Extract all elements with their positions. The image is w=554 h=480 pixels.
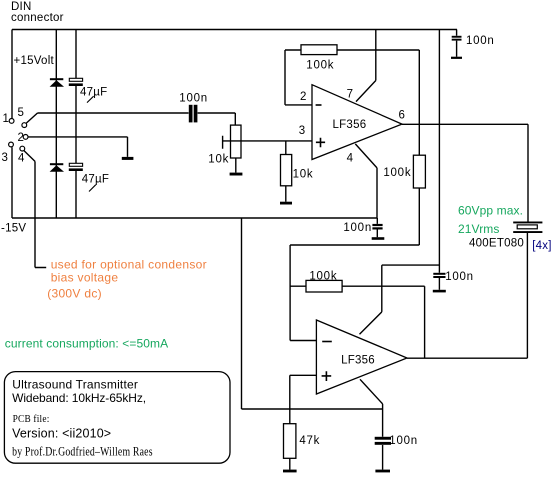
wire -15V bottom rail bbox=[12, 217, 377, 219]
svg-text:100k: 100k bbox=[383, 167, 411, 179]
wire capacitor column segments bbox=[75, 30, 77, 219]
wire +15V top rail bbox=[12, 29, 457, 31]
ground below DIN pin2 bbox=[122, 157, 134, 160]
svg-text:by Prof.Dr.Godfried–Willem Rae: by Prof.Dr.Godfried–Willem Raes bbox=[12, 445, 153, 458]
svg-text:LF356: LF356 bbox=[341, 355, 375, 367]
wire op-amp1 pin2 input bbox=[285, 104, 312, 106]
DIN pin 4 circle bbox=[20, 146, 25, 151]
op-amp U1 plus symbol bbox=[316, 138, 325, 148]
svg-text:4: 4 bbox=[18, 152, 25, 164]
wire signal input to coupling cap bbox=[38, 112, 189, 114]
svg-text:LF356: LF356 bbox=[333, 119, 367, 131]
wire feedback right leg down to pin6 node bbox=[337, 50, 419, 155]
capacitor C2 47uF electrolytic bbox=[69, 163, 83, 171]
diode D1 bbox=[50, 78, 64, 87]
diode D2 bbox=[50, 163, 64, 172]
wire pot wiper bar and wiper line to op-amp pin3 bbox=[223, 136, 312, 149]
svg-text:60Vpp max.: 60Vpp max. bbox=[458, 203, 523, 217]
ground below capacitor C5 bbox=[372, 237, 385, 240]
resistor R2 100k feedback body bbox=[301, 45, 337, 55]
svg-text:Version: <ii2010>: Version: <ii2010> bbox=[12, 427, 111, 441]
svg-text:100k: 100k bbox=[306, 59, 334, 71]
wire op-amp2 pin3 node down to 47k bbox=[289, 375, 291, 423]
svg-text:PCB file:: PCB file: bbox=[13, 414, 50, 426]
resistor R5 47k body bbox=[284, 424, 296, 459]
svg-text:2: 2 bbox=[18, 132, 25, 144]
svg-text:100n: 100n bbox=[389, 435, 418, 447]
wire pot bottom to ground bbox=[235, 158, 237, 173]
transducer 400ET080 piezo symbol bbox=[513, 222, 542, 234]
wire 100k right resistor to second stage bbox=[290, 188, 419, 341]
svg-text:5: 5 bbox=[18, 107, 25, 119]
ground below resistor R1 bbox=[280, 202, 292, 205]
ground below potentiometer bbox=[230, 173, 243, 176]
wire op-amp1 pin7 to +15V bbox=[356, 30, 376, 102]
svg-text:400ET080: 400ET080 bbox=[469, 238, 524, 250]
wire diode column bbox=[55, 30, 57, 219]
resistor R1 10k body bbox=[281, 155, 292, 186]
capacitor C3 100n input coupling bbox=[189, 105, 198, 123]
op-amp U1 triangle bbox=[312, 85, 402, 160]
resistor R4 100k op-amp2 feedback body bbox=[306, 280, 342, 292]
svg-text:21Vrms: 21Vrms bbox=[458, 222, 500, 236]
svg-text:current consumption: <=50mA: current consumption: <=50mA bbox=[5, 337, 168, 351]
wire op-amp2 pin7 to +15V branch bbox=[360, 265, 440, 334]
wire bias row y409 bbox=[242, 218, 383, 409]
svg-text:2: 2 bbox=[300, 91, 307, 103]
svg-text:6: 6 bbox=[399, 109, 406, 121]
wire left column bottom (DIN pin3 to -15V rail) bbox=[11, 147, 13, 218]
capacitor C1 47uF electrolytic bbox=[69, 78, 83, 86]
wire DIN pin2 to ground bbox=[28, 137, 128, 157]
wire op-amp1 pin4 to -15V bbox=[355, 144, 377, 218]
resistor R3 100k body bbox=[413, 155, 425, 188]
wire op-amp2 pin2 input bbox=[290, 340, 316, 342]
svg-text:[4x]: [4x] bbox=[532, 240, 552, 252]
svg-text:100k: 100k bbox=[309, 271, 337, 283]
info box border bbox=[4, 372, 230, 464]
op-amp U1 minus symbol bbox=[316, 104, 322, 106]
wire DIN pin4 diagonal and drop to annotation bbox=[24, 151, 46, 268]
svg-text:100n: 100n bbox=[343, 222, 372, 234]
svg-text:Ultrasound Transmitter: Ultrasound Transmitter bbox=[12, 378, 138, 392]
capacitor C5 100n on -15V rail bbox=[372, 224, 382, 230]
DIN pin 2 circle bbox=[23, 135, 28, 140]
wire op-amp2 pin6 output bbox=[407, 357, 527, 359]
svg-text:47k: 47k bbox=[299, 435, 320, 447]
wire transducer bottom to op-amp2 output bbox=[526, 233, 528, 358]
wire 47k bottom to ground bbox=[289, 458, 291, 469]
wire op-amp1 pin6 output to transducer top bbox=[402, 124, 528, 221]
svg-text:used for optional condensor: used for optional condensor bbox=[51, 258, 207, 272]
wire DIN pin5 diagonal to signal bbox=[26, 113, 37, 123]
wire bottom cap to ground bbox=[382, 445, 384, 470]
wire coupling cap to pot top bbox=[198, 113, 236, 125]
potentiometer P1 10k body bbox=[231, 125, 242, 158]
wire +15V branch down right side bbox=[438, 30, 440, 273]
op-amp U2 triangle bbox=[316, 320, 407, 394]
svg-text:1: 1 bbox=[3, 113, 10, 125]
svg-text:7: 7 bbox=[347, 89, 354, 101]
svg-text:-15V: -15V bbox=[1, 223, 26, 235]
DIN pin 5 circle bbox=[22, 123, 27, 128]
wire -15V rail decoupling cap leads bbox=[376, 218, 378, 237]
svg-text:100n: 100n bbox=[179, 93, 208, 105]
wire left column top (DIN pin1 to +15V rail) bbox=[11, 30, 13, 119]
svg-text:connector: connector bbox=[11, 12, 64, 24]
wire op-amp2 pin4 to bottom cap bbox=[360, 379, 383, 437]
DIN pin 1 circle bbox=[9, 119, 14, 124]
svg-text:100n: 100n bbox=[445, 271, 474, 283]
capacitor C7 100n bottom bbox=[375, 437, 391, 445]
capacitor C4 100n top right bbox=[452, 36, 462, 41]
svg-text:+15Volt: +15Volt bbox=[14, 55, 55, 67]
leader tick for C2 label bbox=[89, 185, 96, 192]
svg-text:bias voltage: bias voltage bbox=[51, 271, 119, 285]
svg-text:Wideband: 10kHz-65kHz,: Wideband: 10kHz-65kHz, bbox=[12, 391, 146, 405]
leader tick for C1 label bbox=[87, 96, 94, 102]
svg-text:47µF: 47µF bbox=[80, 87, 107, 99]
svg-text:(300V dc): (300V dc) bbox=[47, 287, 102, 301]
svg-text:10k: 10k bbox=[293, 169, 314, 181]
wire op-amp2 feedback vertical bbox=[424, 286, 426, 358]
wire 10k resistor top/bottom leads bbox=[285, 141, 287, 202]
svg-text:47µF: 47µF bbox=[82, 173, 109, 185]
wire op-amp2 feedback row bbox=[290, 285, 425, 287]
svg-text:3: 3 bbox=[2, 152, 9, 164]
ground below capacitor C4 bbox=[451, 57, 462, 59]
wire top-right decoupling cap leads bbox=[456, 30, 458, 57]
svg-text:3: 3 bbox=[299, 125, 306, 137]
wire mid-right cap to ground bbox=[438, 278, 440, 290]
svg-text:4: 4 bbox=[347, 153, 354, 165]
ground below capacitor C6 bbox=[433, 290, 446, 293]
op-amp U2 plus symbol bbox=[322, 371, 332, 381]
wire op-amp2 pin3 input bbox=[290, 374, 317, 376]
ground below resistor R5 bbox=[283, 470, 297, 473]
svg-text:100n: 100n bbox=[466, 35, 495, 47]
wire feedback left leg bbox=[285, 50, 301, 105]
capacitor C6 100n mid right bbox=[433, 273, 445, 278]
svg-text:10k: 10k bbox=[208, 154, 229, 166]
ground below capacitor C7 bbox=[375, 470, 390, 473]
op-amp U2 minus symbol bbox=[322, 341, 332, 343]
DIN pin 3 circle bbox=[9, 142, 14, 147]
